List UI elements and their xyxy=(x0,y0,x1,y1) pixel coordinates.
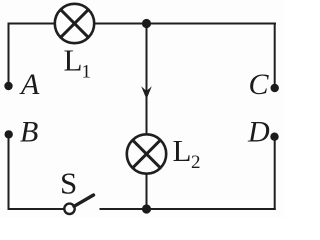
wire top-left segment xyxy=(8,23,56,25)
wire top-right segment xyxy=(95,23,277,25)
svg-text:1: 1 xyxy=(82,62,92,83)
node junction bottom xyxy=(142,204,151,213)
svg-text:S: S xyxy=(60,166,77,201)
terminal C xyxy=(271,84,279,92)
svg-text:D: D xyxy=(247,116,270,149)
wire left upper (corner to A) xyxy=(8,23,10,87)
node junction top xyxy=(142,19,151,28)
label L2 xyxy=(173,133,201,173)
wire left lower (B to bottom corner) xyxy=(8,134,10,210)
switch S pivot xyxy=(64,204,74,214)
svg-text:C: C xyxy=(249,68,270,101)
current arrow xyxy=(141,86,152,99)
svg-text:L: L xyxy=(173,133,192,168)
label L1 xyxy=(64,43,92,83)
lamp L1 xyxy=(55,4,94,43)
svg-text:B: B xyxy=(20,116,38,149)
terminal B xyxy=(5,130,13,138)
terminal D xyxy=(270,133,278,141)
wire right lower (D to bottom corner) xyxy=(274,137,276,211)
wire middle lower (L2 to bottom junction) xyxy=(146,174,148,210)
terminal A xyxy=(4,82,12,90)
lamp L2 xyxy=(127,134,166,173)
svg-text:L: L xyxy=(64,43,83,78)
wire bottom-right (switch to corner) xyxy=(100,208,276,210)
switch S lever xyxy=(74,195,94,206)
svg-text:A: A xyxy=(19,68,40,101)
wire bottom-left (corner to switch) xyxy=(8,208,65,210)
svg-text:2: 2 xyxy=(191,152,201,173)
wire middle upper (junction to L2) xyxy=(146,24,148,135)
wire right upper (corner to C) xyxy=(274,23,276,89)
